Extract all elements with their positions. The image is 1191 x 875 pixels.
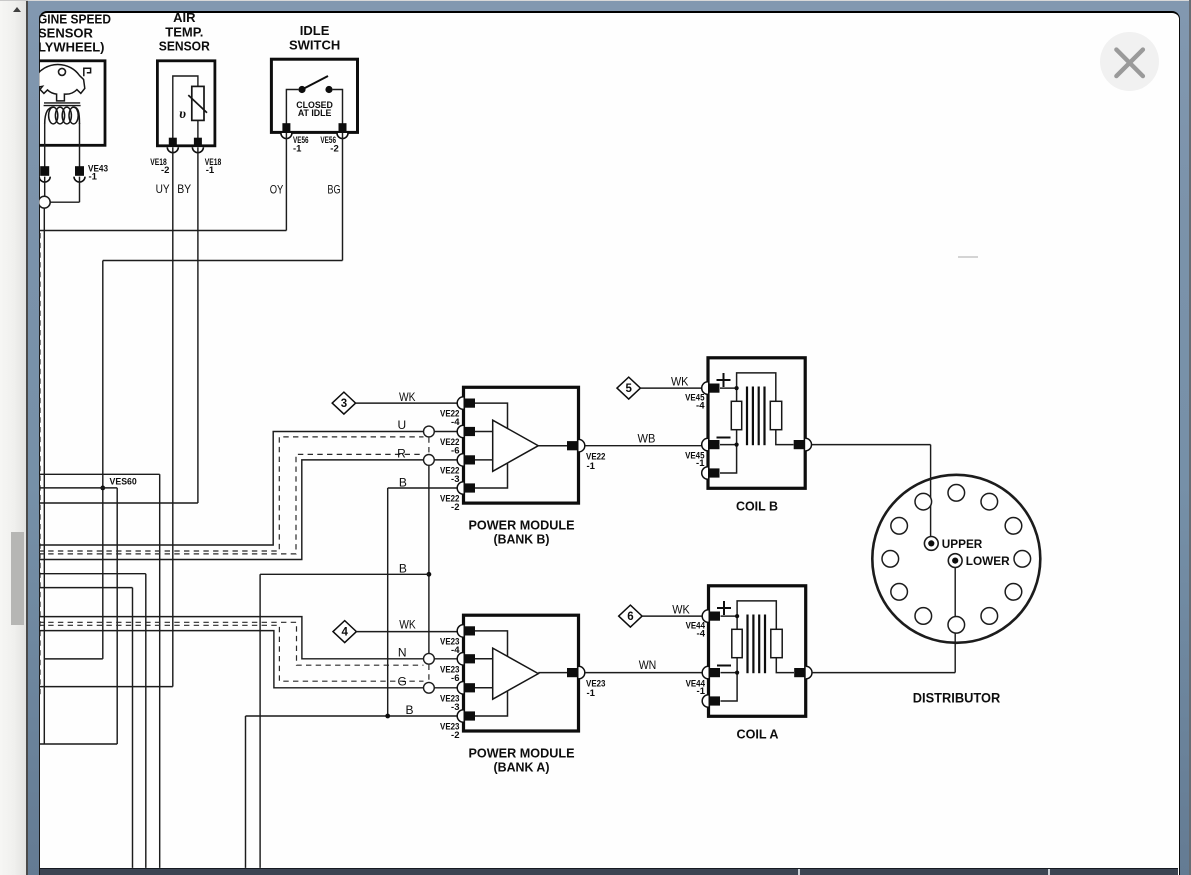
svg-text:UPPER: UPPER bbox=[942, 539, 983, 551]
svg-text:(BANK B): (BANK B) bbox=[494, 532, 550, 547]
svg-text:-1: -1 bbox=[206, 165, 215, 176]
svg-text:G: G bbox=[398, 675, 407, 689]
svg-text:υ: υ bbox=[179, 107, 186, 122]
svg-text:VES60: VES60 bbox=[110, 477, 137, 488]
svg-text:SENSOR: SENSOR bbox=[38, 26, 94, 41]
svg-text:-1: -1 bbox=[587, 688, 596, 699]
svg-text:-3: -3 bbox=[451, 702, 459, 713]
svg-text:-2: -2 bbox=[161, 165, 169, 176]
svg-text:U: U bbox=[397, 418, 406, 432]
svg-text:WB: WB bbox=[638, 431, 656, 445]
svg-text:WK: WK bbox=[672, 603, 690, 617]
svg-text:B: B bbox=[399, 475, 407, 489]
svg-text:AIR: AIR bbox=[173, 10, 196, 25]
svg-text:TEMP.: TEMP. bbox=[165, 24, 203, 39]
svg-text:LOWER: LOWER bbox=[966, 556, 1011, 568]
svg-text:-2: -2 bbox=[451, 730, 459, 741]
svg-text:DISTRIBUTOR: DISTRIBUTOR bbox=[913, 691, 1001, 706]
svg-text:3: 3 bbox=[341, 398, 347, 410]
svg-text:-1: -1 bbox=[293, 144, 302, 155]
svg-text:-3: -3 bbox=[451, 474, 459, 485]
svg-text:LYWHEEL): LYWHEEL) bbox=[38, 40, 105, 55]
svg-text:4: 4 bbox=[341, 627, 348, 639]
svg-text:6: 6 bbox=[627, 611, 633, 623]
svg-text:-6: -6 bbox=[451, 446, 459, 457]
svg-text:IDLE: IDLE bbox=[300, 23, 330, 38]
svg-text:-1: -1 bbox=[696, 458, 705, 469]
svg-text:BY: BY bbox=[177, 182, 191, 196]
svg-text:AT IDLE: AT IDLE bbox=[298, 108, 332, 118]
svg-text:SENSOR: SENSOR bbox=[159, 39, 211, 54]
svg-text:BG: BG bbox=[327, 183, 340, 197]
svg-text:-6: -6 bbox=[451, 673, 459, 684]
svg-text:B: B bbox=[405, 703, 413, 717]
svg-text:-4: -4 bbox=[697, 629, 706, 640]
svg-text:N: N bbox=[398, 646, 407, 660]
svg-text:WK: WK bbox=[671, 375, 689, 389]
svg-text:COIL A: COIL A bbox=[737, 727, 780, 742]
svg-text:-2: -2 bbox=[330, 144, 338, 155]
svg-text:WK: WK bbox=[399, 390, 416, 404]
svg-text:R: R bbox=[397, 447, 406, 461]
svg-text:OY: OY bbox=[270, 183, 284, 197]
svg-text:(BANK A): (BANK A) bbox=[494, 760, 550, 775]
svg-text:B: B bbox=[399, 561, 407, 575]
svg-text:COIL B: COIL B bbox=[736, 499, 778, 514]
svg-text:POWER MODULE: POWER MODULE bbox=[469, 518, 575, 533]
svg-text:UY: UY bbox=[156, 182, 170, 196]
svg-text:-2: -2 bbox=[451, 502, 459, 513]
svg-text:5: 5 bbox=[625, 383, 632, 395]
svg-text:-1: -1 bbox=[587, 461, 596, 472]
svg-text:WN: WN bbox=[639, 658, 657, 672]
svg-text:SWITCH: SWITCH bbox=[289, 37, 340, 52]
svg-text:-4: -4 bbox=[696, 401, 705, 412]
svg-text:GINE SPEED: GINE SPEED bbox=[38, 12, 111, 27]
svg-text:-1: -1 bbox=[89, 172, 98, 183]
svg-text:WK: WK bbox=[399, 617, 416, 631]
svg-text:POWER MODULE: POWER MODULE bbox=[469, 746, 575, 761]
svg-text:-1: -1 bbox=[697, 686, 706, 697]
